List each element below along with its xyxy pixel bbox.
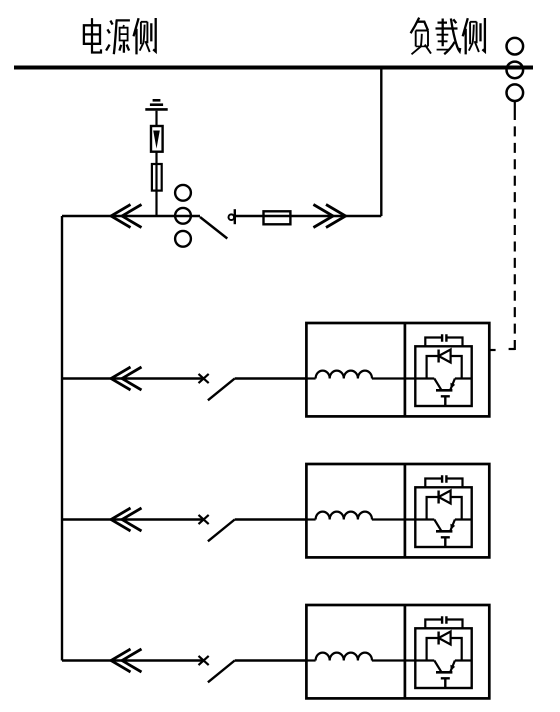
drawout chevrons << row 1	[111, 205, 142, 228]
solid stub from branch 1 box to dashed line	[489, 349, 495, 351]
branch 1 chevrons	[111, 367, 142, 390]
branch 1 left side	[62, 374, 306, 400]
char 负	[411, 18, 420, 34]
surge arrester F1	[151, 126, 163, 152]
branch 3 chevrons	[111, 649, 142, 672]
label 负载侧 (load side)	[411, 18, 485, 55]
char 侧 (second)	[463, 18, 485, 54]
voltage sensor circles at load side	[507, 38, 524, 101]
dashed control line	[514, 110, 516, 350]
drawout chevrons >> row 1	[313, 205, 345, 228]
CT circles row 1	[175, 185, 191, 247]
branch 3 box with inductor and IGBT	[306, 605, 489, 698]
ground (arrester earth, inverted)	[145, 100, 167, 109]
stub under sensor circles	[514, 101, 516, 110]
wire ground to arrester	[155, 111, 157, 126]
branch 2 chevrons	[111, 508, 142, 531]
label 电源侧 (power source side)	[84, 18, 156, 54]
char 源	[106, 21, 113, 51]
branch 1 box with inductor and IGBT	[306, 323, 489, 416]
wire through fuse down to main row	[155, 164, 157, 216]
fuse FU1 (vertical)	[152, 164, 162, 191]
wire contact to riser	[235, 215, 381, 217]
branch 2 box with inductor and IGBT	[306, 464, 489, 557]
branch 3 left side	[62, 656, 306, 682]
fixed contact	[229, 214, 235, 220]
fuse FU2 (horizontal)	[264, 211, 291, 224]
wire arrester to fuse	[155, 152, 157, 164]
char 电	[84, 25, 100, 44]
char 侧 (first)	[134, 18, 156, 54]
main row wire (row 1)	[62, 215, 200, 217]
branch 2 left side	[62, 515, 306, 541]
left feeder vertical wire	[61, 216, 63, 661]
riser to busbar	[380, 68, 382, 217]
dashed control line corner dash	[509, 348, 515, 350]
disconnector blade row 1	[200, 217, 227, 239]
char 载	[436, 19, 458, 47]
busbar	[14, 66, 533, 70]
